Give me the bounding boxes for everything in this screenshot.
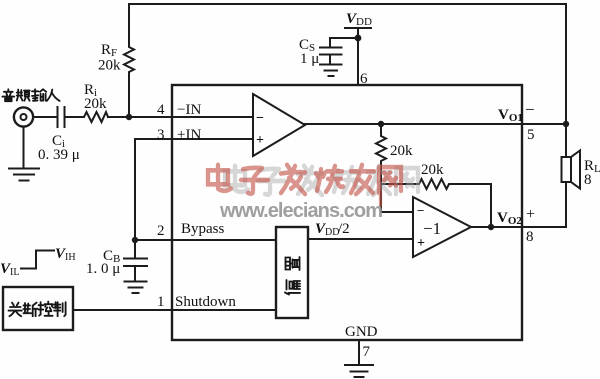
resistor 20k vertical (376, 134, 386, 163)
char 频 (17, 90, 30, 101)
svg-text:20k: 20k (390, 143, 413, 159)
svg-text:IL: IL (10, 267, 19, 278)
svg-text:+: + (526, 206, 535, 223)
wire to CS (330, 38, 358, 47)
op-amp U2 (413, 197, 471, 257)
char 制 (54, 302, 66, 316)
wire top feedback (129, 4, 566, 123)
svg-text:1: 1 (157, 294, 165, 310)
wire down to resistor (380, 124, 382, 134)
svg-text:GND: GND (345, 324, 378, 340)
shutdown control box (3, 287, 73, 330)
svg-text:3: 3 (157, 127, 165, 143)
svg-text:20k: 20k (421, 162, 444, 178)
wire resistor to inverting node (380, 163, 382, 212)
input jack J1 (14, 107, 33, 126)
node VDD-CS junction (355, 35, 362, 42)
wire RF to node A (128, 74, 130, 117)
svg-text:−: − (525, 100, 535, 119)
VDD bar (345, 27, 371, 29)
label 音频输入 (audio input) (2, 89, 59, 101)
svg-text:1. 0 μ: 1. 0 μ (86, 261, 120, 277)
char 控 (39, 302, 53, 316)
wire feedback to VO2 (451, 184, 491, 227)
svg-text:8: 8 (584, 172, 592, 188)
svg-text:−IN: −IN (177, 102, 201, 118)
node VO1-R junction (378, 121, 384, 127)
svg-text:IH: IH (65, 252, 76, 263)
op-amp U1 (253, 94, 305, 156)
svg-text:VO1: VO1 (498, 107, 523, 124)
svg-text:Shutdown: Shutdown (175, 294, 236, 310)
wire Ri to -IN (108, 116, 253, 118)
wire shutdown row (73, 309, 276, 311)
label 关断控制 (shutdown control) (9, 302, 66, 317)
svg-text:−: − (417, 203, 424, 218)
svg-text:2: 2 (157, 223, 165, 239)
watermark gray echo (225, 166, 248, 192)
svg-text:8: 8 (526, 229, 534, 245)
svg-text:+: + (417, 236, 425, 251)
capacitor CS (320, 48, 342, 65)
ground GND (345, 365, 373, 377)
watermark red 电子发烧友网 (208, 165, 231, 191)
wire bypass row (135, 239, 276, 241)
wire +IN (135, 138, 253, 140)
svg-text:+IN: +IN (177, 127, 201, 143)
svg-text:4: 4 (157, 102, 165, 118)
svg-text:www.elecians.com: www.elecians.com (219, 200, 383, 222)
bias box (276, 227, 308, 318)
svg-text:Bypass: Bypass (181, 221, 225, 237)
ground input (9, 169, 39, 181)
char 入 (47, 90, 60, 101)
wire +IN down to bypass (134, 139, 136, 240)
char 断 (24, 303, 38, 317)
svg-text:−: − (256, 111, 264, 126)
wire speaker bottom (565, 182, 567, 227)
char 关 (9, 303, 22, 317)
svg-text:+: + (256, 133, 264, 148)
resistor RF (124, 44, 134, 74)
chinese labels drawn as strokes (2, 89, 300, 316)
resistor 20k horizontal (417, 179, 451, 189)
wire VO2 row (471, 226, 566, 228)
pin7 stem (358, 340, 360, 365)
svg-text:−1: −1 (423, 219, 441, 238)
svg-text:5: 5 (527, 127, 535, 143)
char 输 (32, 89, 46, 101)
wire input row (33, 116, 57, 118)
capacitor Ci (58, 107, 65, 127)
ground CB (125, 282, 147, 294)
svg-text:DD: DD (356, 16, 372, 28)
wire feedback tap row (381, 183, 417, 185)
node VO2 junction (488, 224, 494, 230)
node VO1-out junction (563, 121, 569, 127)
svg-text:/2: /2 (338, 221, 350, 237)
VIL VIH step waveform (21, 251, 54, 269)
capacitor CB (124, 240, 147, 281)
svg-text:7: 7 (363, 344, 371, 360)
label 偏置 (bias, rotated) (285, 257, 300, 294)
watermark (208, 165, 418, 222)
resistor Ri (82, 112, 108, 122)
wire left feedback top (128, 4, 130, 44)
svg-text:RF: RF (101, 42, 117, 59)
wire jack stem (23, 127, 25, 168)
IC box outline (172, 85, 522, 340)
wire VDD/2 row (308, 238, 413, 240)
ground CS (320, 65, 342, 77)
node bypass junction (132, 237, 138, 243)
speaker RL (562, 157, 572, 182)
char 置 (286, 257, 300, 270)
wire inverting input U2 (381, 211, 413, 213)
char 音 (2, 89, 14, 101)
wire Ci to Ri (65, 116, 83, 118)
node A junction (126, 114, 132, 120)
svg-text:0. 39 μ: 0. 39 μ (38, 147, 80, 163)
wire speaker top (565, 124, 567, 157)
watermark red tick (379, 191, 382, 206)
svg-text:1 μ: 1 μ (300, 51, 319, 67)
wire VDD down pin6 (357, 28, 359, 85)
svg-text:VO2: VO2 (497, 210, 522, 227)
wire VO1 row (305, 123, 566, 125)
svg-text:6: 6 (360, 71, 368, 87)
char 偏 (285, 280, 300, 295)
svg-text:20k: 20k (84, 96, 107, 112)
svg-text:20k: 20k (98, 58, 121, 74)
